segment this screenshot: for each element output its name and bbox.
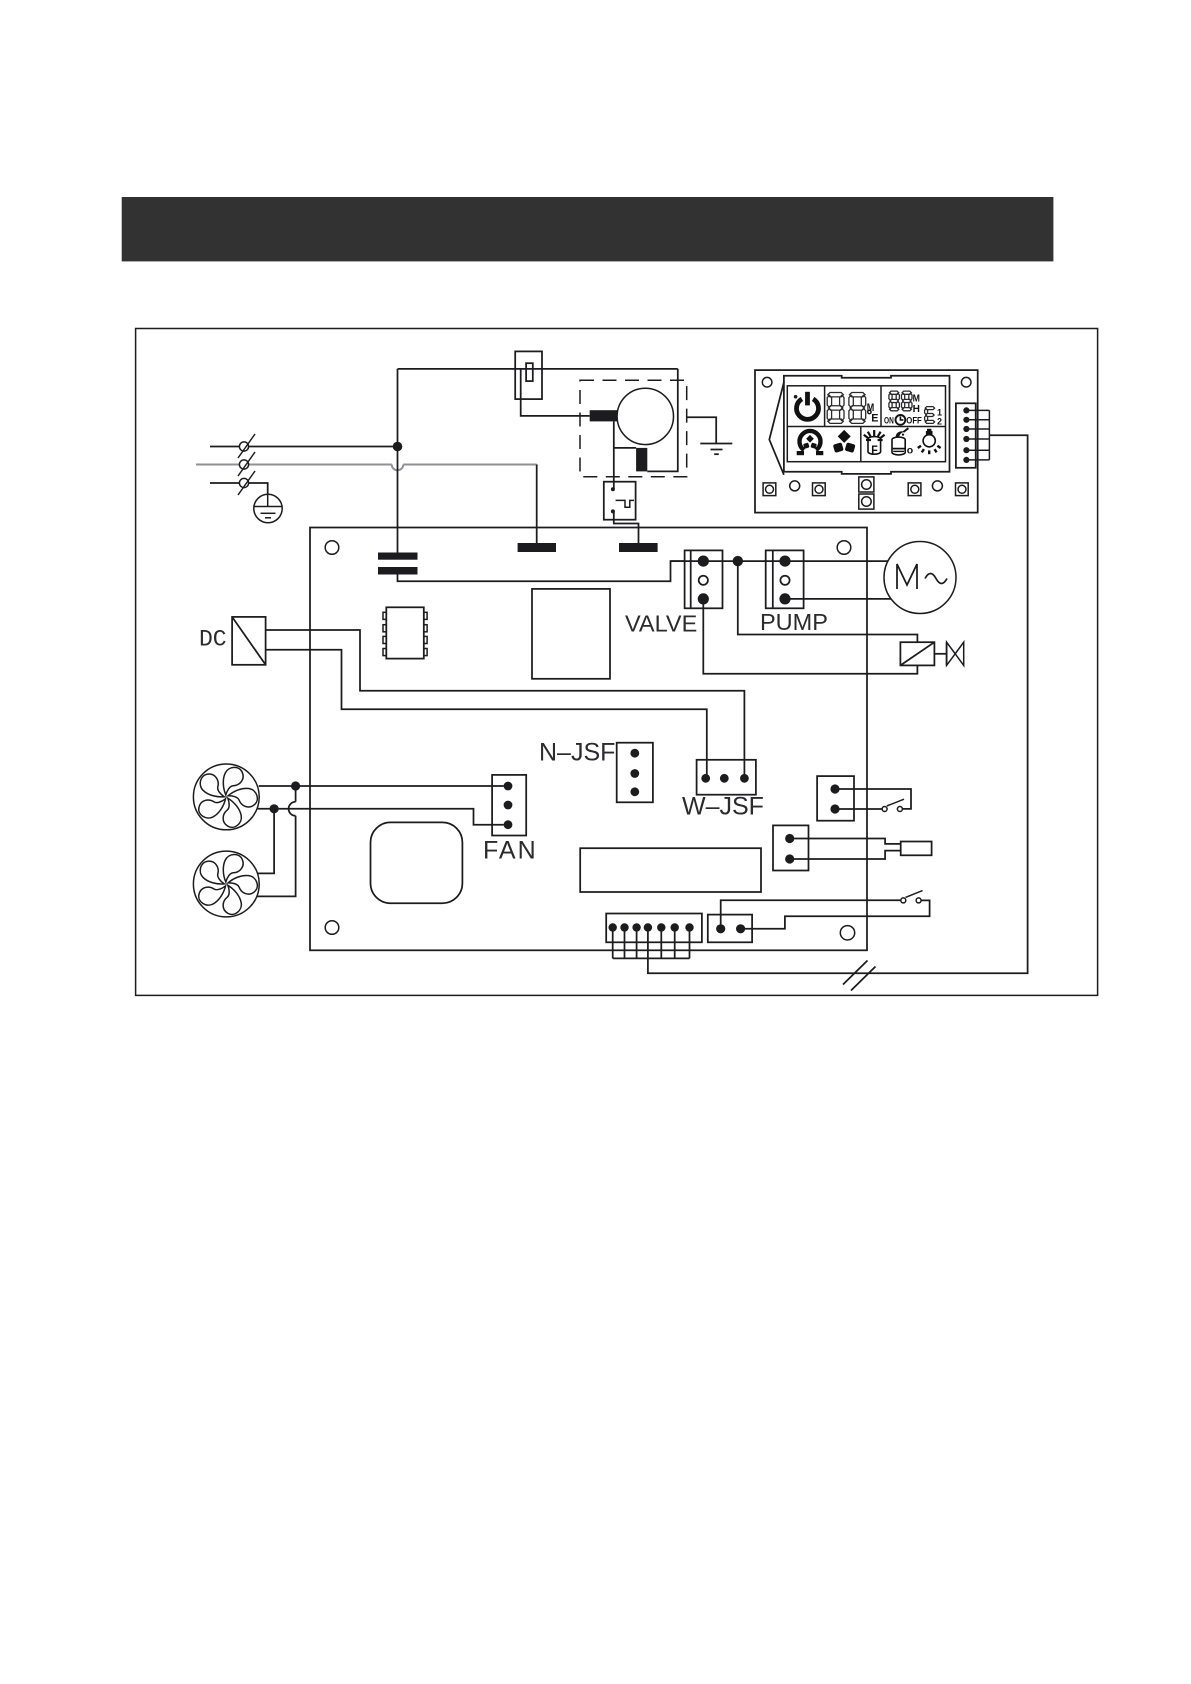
wire node2 down to fan2 top [258, 809, 274, 874]
button K3 [813, 483, 826, 496]
PCB board outline [310, 528, 867, 951]
button K2 [763, 483, 776, 496]
sensor RT1 bulb [901, 842, 932, 856]
wire valve-pump top rail [671, 560, 889, 562]
wire CN8 pin2 to switch S2 [741, 900, 930, 928]
wire L2 neutral input [196, 465, 537, 471]
compressor terminal T1 [590, 410, 617, 421]
display connector CN1 [956, 403, 976, 468]
wire CN6 pin2 to sensor [790, 851, 901, 859]
wire CN7 to display cable [648, 435, 1028, 973]
wire CN5 pin1 to switch S1 [835, 789, 911, 809]
label degE [868, 410, 879, 424]
icon canister F [864, 430, 885, 457]
button K5 [859, 494, 874, 509]
capacitor bar right [619, 543, 658, 552]
wire L1 live input [210, 446, 398, 448]
switch S1 [882, 799, 904, 811]
icon canister O [892, 428, 913, 456]
wire capacitor to valve connector [398, 561, 685, 581]
PCB hole top-right [837, 541, 851, 555]
wire CN5 pin2 to switch S1 [835, 808, 882, 810]
compressor terminal T2 [636, 448, 647, 472]
connector FAN [492, 775, 526, 836]
wire CN7 comb bus [613, 928, 690, 959]
button K4 [859, 477, 874, 492]
button LED1 [790, 481, 800, 491]
icon wheel [797, 431, 824, 453]
svg-text:E: E [871, 412, 878, 424]
svg-text:DC: DC [199, 627, 227, 653]
svg-text:FAN: FAN [483, 837, 538, 865]
svg-text:VALVE: VALVE [625, 611, 697, 637]
IC U1 [383, 607, 427, 658]
cable break marks [843, 961, 876, 991]
wire compressor case to ground [687, 417, 717, 443]
terminal X2 [238, 452, 255, 476]
wire right side of compressor loop [647, 369, 678, 472]
wire L3 earth input [210, 483, 268, 495]
PCB hole bottom-right [840, 926, 854, 940]
digits 88 timer [889, 391, 912, 411]
ground chassis [700, 444, 732, 455]
connector VALVE [685, 550, 723, 608]
button K6 [908, 483, 921, 496]
relay box U3 [532, 589, 610, 679]
icon fan blades [833, 430, 856, 453]
svg-text:OFF: OFF [906, 415, 922, 426]
wire DC-A to W-JSF pin3 [266, 630, 745, 778]
node fan junction 2 [270, 804, 279, 813]
connector N-JSF [617, 743, 653, 803]
terminal X1 [238, 434, 255, 458]
connector CN5 switch upper [817, 776, 854, 821]
display hole left [762, 377, 772, 387]
LCD bezel wedge [769, 382, 784, 475]
diagram frame [136, 329, 1098, 996]
transformer rounded box [371, 822, 463, 903]
LCD glass [787, 386, 945, 462]
svg-text:M: M [913, 394, 920, 405]
node fan junction 1 [291, 781, 300, 790]
svg-text:o: o [907, 444, 913, 456]
icon bulb [918, 429, 941, 454]
terminal X3 [238, 471, 255, 495]
wire CN8 pin1 to switch S2 [721, 900, 901, 929]
label E12 [925, 407, 942, 427]
wire fan1 to FAN pin1 [259, 785, 504, 787]
icon power [794, 392, 819, 420]
compressor dashed enclosure [580, 380, 687, 476]
wire DC-B to W-JSF pin1 [266, 650, 707, 779]
PCB hole top-left [325, 541, 339, 555]
wire to terminal T2 [614, 447, 636, 449]
connector CN7 7pin [606, 914, 702, 943]
wire pump pin3 to motor [785, 598, 891, 600]
overload protector K1 [604, 482, 636, 520]
wire fan1 lower to FAN pin3 [258, 809, 504, 825]
svg-text:2: 2 [937, 416, 942, 426]
wire CN6 pin1 to sensor [790, 839, 901, 844]
motor M2 [884, 542, 956, 614]
fan motor FM1 [193, 764, 259, 831]
connector CN8 2pin bottom [708, 915, 752, 943]
LCD cell dividers [787, 386, 945, 462]
connector CN6 sensor [773, 825, 809, 870]
svg-text:H: H [913, 404, 920, 415]
DC converter U2 [232, 617, 266, 665]
wire valve pin3 to solenoid bottom [703, 599, 917, 674]
svg-text:ON: ON [884, 415, 894, 426]
title bar [122, 197, 1054, 261]
fuse F1 [515, 351, 542, 399]
wire protector to capacitor bar [614, 511, 639, 543]
svg-text:W–JSF: W–JSF [682, 793, 764, 821]
digits 88 main [827, 393, 866, 424]
fan motor FM2 [193, 851, 259, 918]
capacitor bar middle [518, 543, 556, 552]
svg-text:N–JSF: N–JSF [539, 739, 615, 767]
svg-text:F: F [871, 443, 878, 457]
wire neutral drop to capacitor bar [536, 465, 538, 544]
wire T1 to overload protector [613, 421, 615, 489]
wire top line through fuse [398, 368, 678, 370]
LCD bezel frame [784, 376, 950, 474]
PCB hole bottom-left [325, 921, 339, 935]
wire node1 down to fan2 bottom with hop [257, 786, 296, 896]
display board outline [755, 370, 978, 512]
compressor M1 [617, 388, 673, 444]
wire junction down to capacitors [397, 447, 399, 553]
svg-text:PUMP: PUMP [760, 609, 828, 635]
capacitor C1 plates [378, 553, 418, 575]
display hole right [961, 377, 971, 387]
switch S2 [901, 891, 923, 903]
long connector strip [580, 848, 761, 892]
button LED2 [932, 481, 942, 491]
connector W-JSF [697, 760, 756, 795]
wire fuse branch to compressor terminal [521, 369, 590, 416]
wire junction to fuse line [397, 369, 399, 447]
connector PUMP [766, 550, 804, 608]
solenoid Y1 [900, 642, 963, 665]
wire node to solenoid top [738, 561, 918, 642]
ground earth electrode [254, 494, 282, 522]
button K7 [956, 483, 969, 496]
icon clock [896, 415, 906, 425]
node A junction [393, 442, 403, 452]
node B junction dot [733, 556, 743, 566]
display cable stubs [966, 410, 989, 460]
